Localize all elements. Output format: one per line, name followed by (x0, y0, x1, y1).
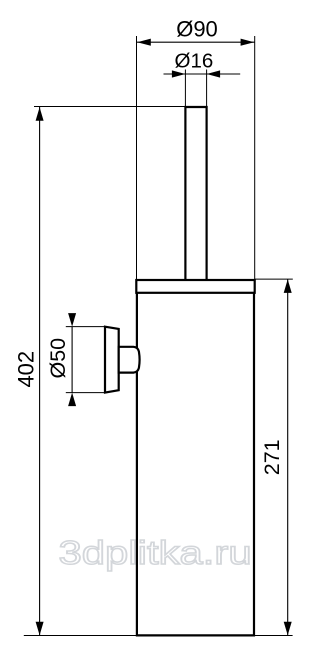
wall bracket plate (105, 327, 119, 393)
svg-text:Ø16: Ø16 (175, 50, 214, 73)
dimension 402 dim line (39, 107, 41, 635)
dimension Ø90 right arrow (241, 39, 255, 46)
svg-text:Ø90: Ø90 (176, 16, 218, 41)
dimension Ø90 left arrow (137, 39, 151, 46)
container collar (lid) (136, 280, 254, 293)
dimension Ø16 left arrow (172, 70, 186, 77)
dimension Ø50 top arrow (68, 313, 76, 327)
dimension 271 top extension line (255, 278, 293, 280)
dimension 402 bottom arrow (36, 622, 44, 636)
svg-text:402: 402 (13, 351, 38, 388)
dimension Ø16 right arrow (207, 70, 221, 77)
shared bottom extension line (24, 635, 293, 637)
svg-text:3dplitka.ru: 3dplitka.ru (59, 535, 252, 572)
dimension Ø90 right extension line (254, 36, 256, 279)
dimension 402 top extension line (34, 106, 185, 108)
svg-text:271: 271 (260, 439, 284, 475)
dimension Ø90 left extension line (136, 36, 138, 280)
dimension Ø50 dim line (71, 327, 73, 393)
wall bracket knob (119, 347, 140, 373)
dimension Ø16 left extension line (184, 70, 186, 107)
brush handle rod (185, 107, 206, 280)
dimension Ø50 top extension line (66, 326, 105, 328)
dimension Ø16 dim line (164, 73, 241, 75)
dimension 402 top arrow (36, 107, 44, 121)
dimension 271 bottom arrow (284, 622, 292, 636)
dimension Ø50 bottom arrow (68, 393, 76, 407)
watermark 3dplitka.ru (59, 535, 252, 572)
dimension Ø50 bottom extension line (66, 392, 105, 394)
dimension 271 dim line (287, 279, 289, 635)
dimension Ø16 right extension line (206, 70, 208, 107)
dimension 271 top arrow (284, 279, 292, 293)
container body (137, 293, 254, 636)
dimension Ø90 dim line (137, 41, 255, 43)
svg-text:Ø50: Ø50 (46, 338, 70, 379)
